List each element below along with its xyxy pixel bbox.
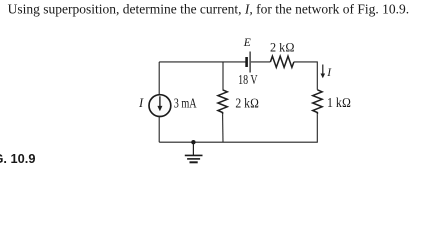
resistor 1 kOhm vertical zigzag [313, 90, 322, 115]
svg-text:FIG. 10.9: FIG. 10.9 [0, 151, 35, 166]
current source arrow (down) [159, 96, 161, 106]
resistor 2 kOhm vertical zigzag (middle) [218, 90, 227, 115]
ground bar 3 [190, 161, 198, 163]
wire: top resistor to top-right corner, down to right resistor [294, 62, 317, 90]
svg-text:18 V: 18 V [238, 72, 258, 87]
wire: battery to top resistor [251, 61, 271, 63]
resistor 2 kOhm horizontal zigzag [270, 56, 294, 67]
ground junction dot [191, 140, 195, 144]
svg-text:Using superposition, determine: Using superposition, determine the curre… [8, 1, 410, 16]
wire: middle resistor to bottom wire [222, 114, 224, 142]
svg-text:I: I [138, 96, 144, 110]
ground bar 1 [185, 154, 203, 156]
svg-text:3 mA: 3 mA [174, 95, 197, 110]
arrow for current I (down) [322, 65, 324, 75]
svg-text:2 kΩ: 2 kΩ [235, 96, 259, 111]
battery E: short negative plate [245, 57, 248, 67]
wire: left vertical top (corner down to current source) [158, 62, 160, 95]
svg-text:2 kΩ: 2 kΩ [270, 41, 295, 55]
ground stem [192, 142, 194, 155]
current source circle [149, 95, 171, 117]
wire: right resistor down to bottom-right corner and bottom wire [159, 114, 317, 142]
battery E: long positive plate [249, 52, 251, 73]
wire: top left horizontal (left corner to battery) [159, 61, 245, 63]
svg-text:1 kΩ: 1 kΩ [327, 95, 351, 110]
svg-text:I: I [326, 67, 332, 79]
wire: middle branch vertical from top wire [222, 62, 224, 90]
wire: current source to bottom-left corner [158, 117, 160, 143]
svg-text:E: E [243, 37, 251, 49]
ground bar 2 [187, 158, 200, 160]
